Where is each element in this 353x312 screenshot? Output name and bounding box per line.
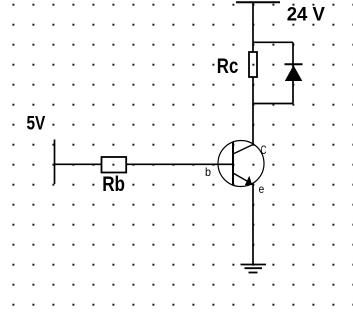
svg-text:C: C: [261, 145, 267, 157]
svg-text:Rc: Rc: [217, 54, 239, 78]
svg-text:e: e: [259, 182, 265, 196]
svg-text:b: b: [205, 165, 211, 179]
svg-text:5V: 5V: [27, 114, 46, 135]
svg-text:24 V: 24 V: [287, 5, 326, 26]
svg-text:Rb: Rb: [102, 172, 125, 196]
